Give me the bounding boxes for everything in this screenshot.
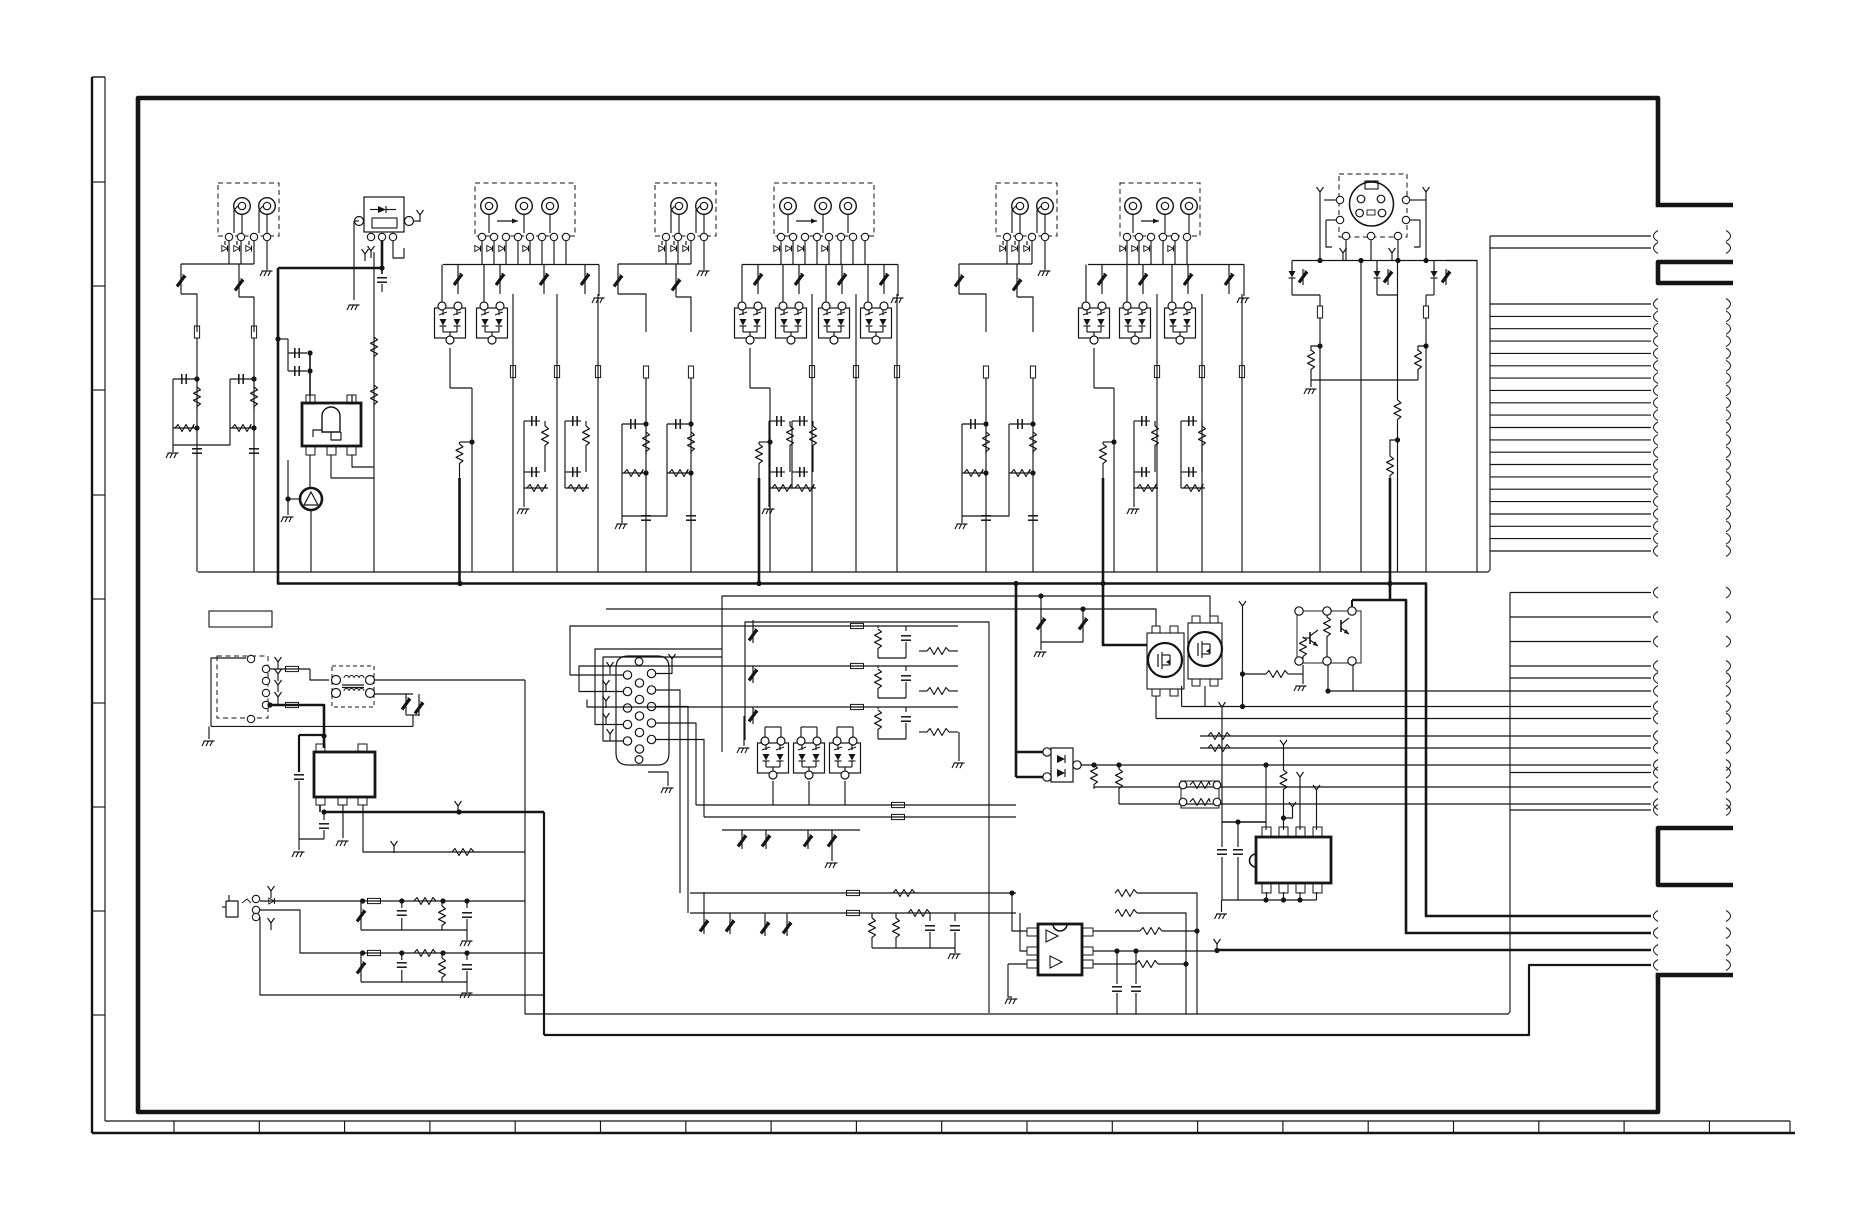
resistor (251, 387, 258, 409)
wire (288, 498, 300, 500)
jack (696, 198, 713, 215)
wire (1311, 379, 1418, 381)
IC3 (DIP-8) (1256, 837, 1331, 883)
capacitor (1134, 420, 1150, 422)
antenna (277, 697, 279, 704)
wire (352, 455, 374, 467)
switch contact (1041, 233, 1048, 240)
diode (786, 246, 791, 252)
harness wire (1510, 747, 1651, 749)
fuse (1319, 295, 1321, 306)
diode (475, 246, 480, 252)
fuse (853, 366, 858, 378)
diode (671, 246, 676, 252)
long wire (690, 378, 692, 572)
diode array (776, 308, 807, 338)
long wire (1397, 261, 1399, 401)
routing to lower rows (656, 664, 673, 674)
jack (1037, 198, 1054, 215)
resistor (1300, 637, 1307, 659)
connector jack block (dashed) (655, 183, 716, 236)
switch contact (237, 233, 244, 240)
suppressor (729, 913, 731, 918)
junction (275, 336, 280, 341)
wire (483, 265, 485, 303)
resistor (643, 432, 650, 454)
transient suppressor (584, 265, 586, 273)
fuse (368, 950, 381, 955)
switch contact (700, 233, 707, 240)
ground (283, 516, 294, 518)
connector jack block (dashed) (774, 183, 874, 236)
switch contact (1147, 233, 1154, 240)
pin (647, 735, 655, 743)
junction row (1292, 260, 1477, 262)
harness wire (1510, 641, 1651, 643)
long wire (310, 510, 312, 572)
zener / suppressor pair (1376, 261, 1378, 270)
jack (671, 198, 688, 215)
switch contact (225, 233, 232, 240)
bus junction (1387, 581, 1392, 586)
pin (647, 686, 655, 694)
pin (635, 728, 643, 736)
zener (764, 913, 766, 920)
resistor (1200, 735, 1510, 737)
resistor (962, 472, 986, 474)
resistor (1146, 420, 1155, 422)
ground (958, 732, 960, 761)
zener (741, 830, 743, 834)
capacitor (401, 899, 403, 908)
pin (623, 737, 631, 745)
antenna (1319, 192, 1321, 199)
jack (481, 198, 498, 215)
capacitor (905, 626, 907, 631)
thick wire down (543, 812, 545, 1035)
fuse (851, 663, 864, 668)
ground (1310, 371, 1312, 387)
ground (703, 241, 705, 270)
long wire (471, 388, 473, 572)
transient suppressor (958, 264, 960, 274)
filter row (745, 706, 958, 708)
fuse (809, 366, 814, 378)
long wire (985, 378, 987, 572)
fuse (688, 366, 693, 378)
transient suppressor (238, 264, 240, 277)
long wire (896, 294, 898, 572)
switch contact (861, 233, 868, 240)
contact (262, 689, 269, 696)
capacitor (466, 953, 468, 960)
suppressor row low (722, 829, 860, 831)
harness wire (1490, 488, 1651, 490)
capacitor (1181, 420, 1197, 422)
diode D (378, 206, 386, 213)
resistor (688, 432, 695, 454)
diode (1132, 246, 1137, 252)
capacitor (192, 448, 202, 450)
resistor (1091, 762, 1096, 767)
resistor (906, 731, 938, 733)
harness wire (1510, 735, 1651, 737)
pin mark (1391, 253, 1393, 260)
jack (259, 198, 276, 215)
ground (598, 265, 600, 297)
diode (1120, 246, 1125, 252)
diode (683, 246, 688, 252)
pin (623, 720, 631, 728)
jack (1012, 198, 1029, 215)
terminal (1402, 196, 1409, 203)
fuse (251, 326, 256, 338)
fuse (851, 704, 864, 709)
capacitor (288, 370, 307, 372)
jack (1157, 198, 1174, 215)
harness wire (1490, 538, 1651, 540)
resistor (877, 626, 879, 628)
antenna tap (1292, 807, 1294, 814)
diode (1012, 246, 1017, 252)
antenna input (413, 220, 420, 222)
harness wire (1490, 451, 1651, 453)
pin4 feed (1316, 790, 1318, 797)
transient suppressor (883, 265, 885, 273)
diode array (830, 743, 861, 773)
contact (262, 677, 269, 684)
ground (648, 772, 668, 786)
diode (1168, 246, 1173, 252)
mounting pin (635, 756, 643, 764)
diode (234, 246, 239, 252)
diode (1024, 246, 1029, 252)
suppressor (762, 836, 770, 847)
antenna (277, 674, 279, 681)
S-video jack (1350, 182, 1394, 226)
routing line to FET block 2 (606, 609, 1156, 626)
connector jack block (dashed) (996, 183, 1057, 236)
harness wire (1510, 690, 1651, 692)
filter row (745, 665, 958, 667)
thick signal wire 4 (544, 965, 1651, 1035)
fuse (1425, 295, 1427, 306)
switch contact (538, 233, 545, 240)
long wire (1425, 318, 1427, 572)
regulator IC2 (314, 752, 375, 797)
pin (378, 233, 385, 240)
diode array (861, 308, 892, 338)
diode array (819, 308, 850, 338)
pin (635, 745, 643, 753)
switch contact (263, 233, 270, 240)
ground (1243, 265, 1245, 297)
label box (209, 611, 272, 627)
photocoupler PC1 (1051, 748, 1073, 782)
diode (1000, 246, 1005, 252)
capacitor (1221, 822, 1223, 847)
diode (246, 246, 251, 252)
ground bus (thick) (278, 268, 1426, 586)
diode array (1079, 308, 1110, 338)
switch contact (1159, 233, 1166, 240)
pin (647, 669, 655, 677)
fuse pair (696, 804, 1016, 806)
pin mark (1342, 253, 1344, 260)
bus junction (457, 581, 462, 586)
antenna (277, 685, 279, 692)
feed from diode array (1093, 348, 1095, 388)
capacitor (565, 471, 581, 473)
resistor (1181, 487, 1205, 489)
fuse (1239, 366, 1244, 378)
harness wire (1490, 402, 1651, 404)
fuse (847, 890, 860, 895)
wire (181, 263, 254, 265)
wire (363, 805, 525, 852)
ground rail under DIP (1222, 899, 1317, 901)
wire (1326, 219, 1336, 221)
long wire (597, 294, 599, 572)
antenna feed (1242, 606, 1244, 613)
resistor (1243, 673, 1267, 675)
pin (623, 704, 631, 712)
harness wire (1510, 706, 1651, 708)
resistor (792, 487, 816, 489)
jack (1181, 198, 1198, 215)
antenna (605, 718, 607, 725)
terminal (355, 217, 364, 226)
wire (443, 264, 599, 266)
wire (782, 265, 784, 303)
transient suppressor (457, 265, 459, 273)
ground (208, 726, 210, 739)
thick signal wire 1 (1426, 586, 1651, 916)
wires (1351, 600, 1353, 607)
ground (897, 265, 899, 297)
supply antenna (1221, 707, 1223, 714)
ground (172, 445, 174, 452)
switch contact (687, 233, 694, 240)
harness wire (1490, 303, 1651, 305)
wire (173, 428, 230, 445)
harness wire (1510, 772, 1651, 774)
capacitor (466, 901, 468, 908)
thick feed wire (1389, 478, 1392, 600)
antenna (605, 701, 607, 708)
wire (564, 421, 566, 488)
contact (262, 665, 269, 672)
harness wire (1490, 550, 1651, 552)
pin (623, 671, 631, 679)
switch contact (514, 233, 521, 240)
zener (807, 830, 809, 834)
resistor (1134, 487, 1158, 489)
thick wire (270, 705, 324, 748)
transient suppressor (180, 264, 182, 274)
wire (1180, 421, 1182, 488)
wire (768, 421, 770, 488)
fuse (368, 898, 381, 903)
contact (262, 701, 269, 708)
long wire (196, 338, 198, 572)
resistor (1116, 762, 1121, 767)
resistor (414, 898, 436, 905)
thick wire tuner to bus (278, 241, 382, 268)
audio row R (260, 910, 544, 953)
ground (266, 241, 268, 270)
fuse (1154, 366, 1159, 378)
fuse (643, 366, 648, 378)
pin3 feed (1299, 777, 1301, 784)
headphone jack (226, 901, 238, 917)
wire (1133, 421, 1135, 488)
resistor (194, 387, 201, 409)
pin (647, 719, 655, 727)
resistor network pack (1181, 781, 1219, 808)
switch contact (837, 233, 844, 240)
zener (703, 893, 705, 918)
switch contact (1028, 233, 1035, 240)
wire (211, 658, 246, 726)
transient suppressor (675, 264, 677, 277)
pin (635, 695, 643, 703)
transistor pair block Q3/Q4 (1297, 611, 1361, 663)
diode array (735, 308, 766, 338)
transient suppressor (1187, 265, 1189, 273)
capacitor (641, 515, 651, 517)
page margin ruler left (91, 77, 93, 1133)
filter row (745, 625, 958, 627)
tuner unit T1 (364, 197, 404, 232)
capacitor (686, 515, 696, 517)
switch contact (825, 233, 832, 240)
capacitor (323, 812, 325, 820)
audio row L (260, 900, 525, 902)
resistor (1394, 400, 1401, 422)
switch contact (1171, 233, 1178, 240)
transient suppressor (1016, 264, 1018, 277)
antenna (609, 734, 611, 741)
resistor (906, 690, 938, 692)
vertical feeds (752, 620, 754, 626)
diode (269, 898, 274, 904)
switch contact (1015, 233, 1022, 240)
ground (954, 948, 956, 953)
antenna (393, 846, 395, 853)
jack (516, 198, 533, 215)
switch contact (250, 233, 257, 240)
wire (351, 395, 353, 404)
capacitor (524, 420, 540, 422)
capacitor (981, 515, 991, 517)
connector jack block (dashed) (475, 183, 575, 236)
switch contact (849, 233, 856, 240)
ground rail (211, 725, 413, 727)
wire (278, 338, 288, 340)
connector jack block (dashed) (1120, 183, 1200, 236)
resistor (622, 472, 646, 474)
ground (523, 488, 525, 507)
lamp (309, 455, 311, 487)
jack (542, 198, 559, 215)
resistor (173, 427, 197, 429)
resistor (804, 420, 813, 422)
harness wire (1490, 315, 1651, 317)
fuse (510, 366, 515, 378)
wire (374, 693, 413, 695)
page margin ruler bottom (105, 1120, 1790, 1122)
resistor (667, 472, 691, 474)
jack (234, 198, 251, 215)
switch contact (674, 233, 681, 240)
harness wire (1490, 414, 1651, 416)
bus junction (1100, 581, 1105, 586)
line filter (dashed) (332, 666, 374, 707)
wire (1094, 786, 1651, 788)
fuse (1030, 366, 1035, 378)
antenna (270, 891, 272, 898)
capacitor (1114, 948, 1119, 953)
harness wire (1490, 328, 1651, 330)
suppressor (360, 953, 362, 961)
S-video connector block (dashed) (1339, 174, 1407, 237)
pin (623, 687, 631, 695)
main board border (138, 98, 1658, 1112)
optocoupler IC1 (302, 403, 361, 446)
pin (389, 233, 396, 240)
ground (768, 488, 770, 507)
mounting pin (635, 658, 643, 666)
resistor (877, 707, 879, 709)
capacitor (769, 471, 785, 473)
wire harness bundle vertical (upper) (1489, 236, 1491, 570)
wire harness bundle vertical (lower) (1509, 593, 1511, 1013)
switch contact (502, 233, 509, 240)
pin1 feed (1263, 762, 1268, 767)
pin2 feed (1283, 745, 1285, 752)
resistor (908, 910, 930, 917)
capacitor (249, 448, 259, 450)
fuse (595, 366, 600, 378)
resistor (536, 420, 545, 422)
long wire (1241, 294, 1243, 572)
switch contact (1003, 233, 1010, 240)
resistor (1030, 432, 1037, 454)
wire (867, 265, 869, 303)
ground (1133, 488, 1135, 507)
FET bottom wires (1155, 696, 1157, 719)
wires to thick bus (758, 584, 760, 742)
thick signal wire 3 (1217, 949, 1651, 952)
fuse (194, 326, 199, 338)
fuse (894, 366, 899, 378)
transistor (1309, 632, 1311, 644)
wire (741, 265, 743, 303)
resistor (565, 487, 589, 489)
long wire (1201, 294, 1203, 572)
bus return wire (198, 570, 1490, 572)
harness wire (1490, 501, 1651, 503)
capacitor (565, 420, 581, 422)
resistor (524, 487, 548, 489)
transient suppressor (757, 265, 759, 273)
ground (298, 839, 300, 850)
diode array (794, 743, 825, 773)
fuse (847, 910, 860, 915)
resistor (1093, 930, 1140, 932)
pin (647, 702, 655, 710)
